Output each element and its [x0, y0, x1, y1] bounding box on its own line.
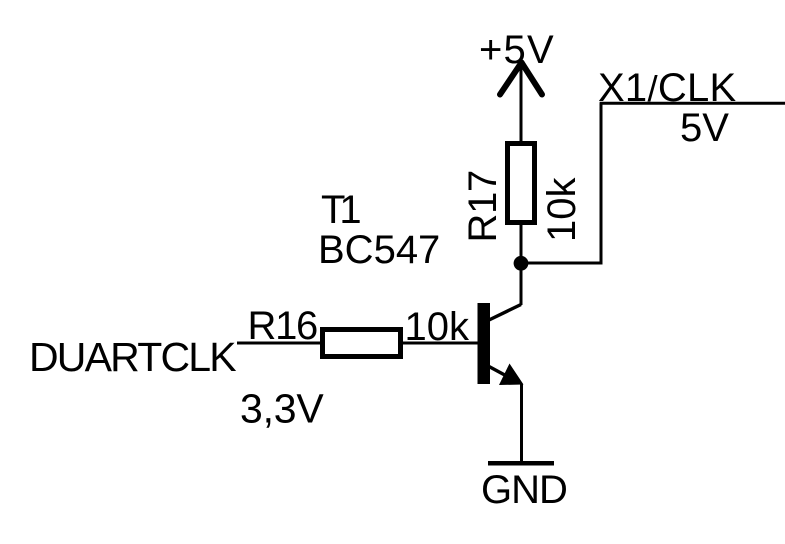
- wire DUARTCLK to R16: [237, 342, 322, 345]
- ground symbol: [488, 461, 554, 466]
- svg-text:3,3V: 3,3V: [240, 386, 324, 432]
- resistor R17: [508, 144, 535, 223]
- svg-text:R16: R16: [248, 304, 318, 348]
- wire R17 to node: [520, 222, 523, 263]
- wire +5V to R17: [520, 63, 523, 143]
- svg-text:BC547: BC547: [318, 228, 440, 272]
- svg-text:T1: T1: [321, 188, 360, 232]
- svg-text:5V: 5V: [680, 106, 729, 150]
- wire collector to node: [520, 263, 523, 305]
- wire emitter to GND: [520, 384, 523, 462]
- transistor T1: [478, 303, 524, 385]
- svg-text:GND: GND: [481, 468, 567, 512]
- svg-text:R17: R17: [461, 170, 505, 242]
- svg-text:+5V: +5V: [479, 28, 555, 72]
- wire node to X1/CLK: [521, 103, 601, 263]
- supply symbol +5V: [500, 63, 542, 95]
- svg-text:X1/CLK: X1/CLK: [598, 66, 736, 110]
- svg-text:10k: 10k: [540, 177, 584, 242]
- svg-text:DUARTCLK: DUARTCLK: [29, 334, 236, 380]
- node junction: [514, 256, 529, 271]
- net X1/CLK bus line: [600, 102, 785, 105]
- resistor R16: [323, 330, 401, 357]
- wire R16 to base: [403, 342, 478, 345]
